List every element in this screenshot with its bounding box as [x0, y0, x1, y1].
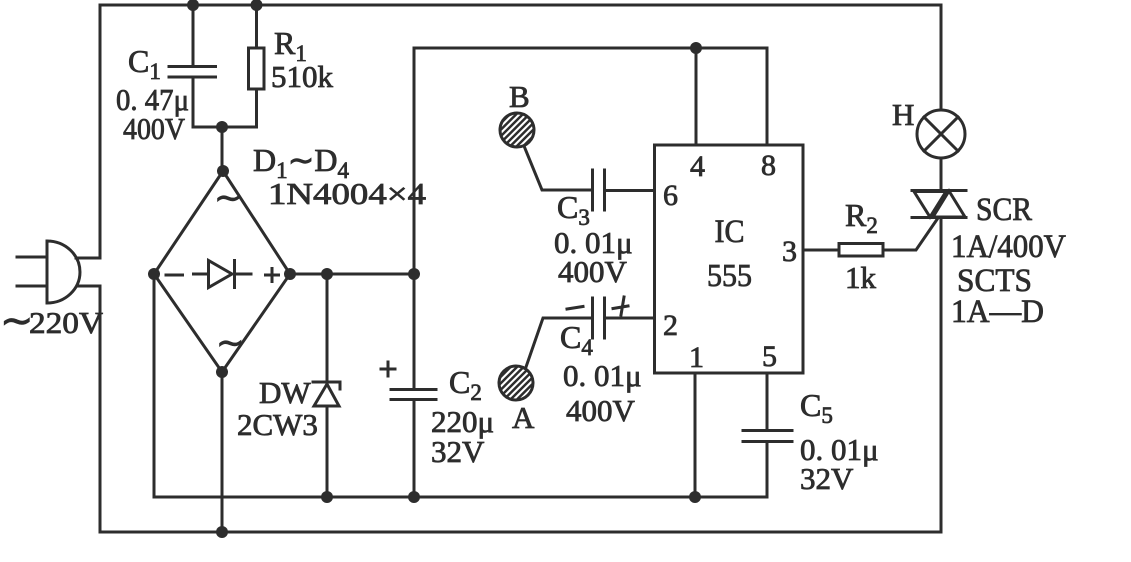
svg-text:SCR: SCR: [976, 192, 1032, 228]
triac SCR: [912, 191, 966, 218]
svg-text:C1: C1: [128, 43, 161, 84]
wire pin4: [695, 48, 698, 145]
capacitor C1: [169, 5, 216, 127]
resistor R2: [839, 244, 883, 257]
label D1~D4: [253, 142, 427, 211]
label bridge ac top: [214, 180, 243, 217]
wire C3 to pin6: [605, 189, 654, 192]
svg-text:1k: 1k: [845, 260, 877, 295]
svg-text:C2: C2: [449, 364, 482, 405]
pin 5: [762, 340, 777, 373]
label C4 value: [560, 319, 642, 428]
node bridge bottom: [216, 366, 228, 378]
label bridge ac bottom: [216, 325, 245, 362]
node pin4 top: [690, 42, 702, 54]
svg-text:5: 5: [762, 340, 777, 373]
wire top rail: [100, 4, 941, 7]
touch plate A: [499, 366, 533, 400]
svg-text:8: 8: [761, 149, 776, 182]
svg-text:510k: 510k: [271, 59, 334, 94]
capacitor C4: [593, 298, 605, 338]
pin 4: [690, 150, 705, 183]
svg-text:R2: R2: [845, 197, 878, 238]
svg-text:C5: C5: [800, 387, 833, 428]
wire pin3: [803, 249, 839, 252]
label C4 polarity minus: [567, 307, 583, 310]
svg-text:DW: DW: [259, 375, 311, 410]
wire lamp to triac: [940, 158, 943, 190]
svg-text:4: 4: [690, 150, 705, 183]
pin 3: [782, 235, 797, 268]
label C5 value: [800, 387, 879, 496]
label SCR: [951, 192, 1066, 330]
label H: [892, 97, 914, 132]
wire inner top rail: [414, 47, 767, 50]
wire triac to bottom rail: [940, 218, 943, 532]
pin 2: [663, 309, 678, 342]
label DW: [237, 375, 318, 442]
wire top rail to lamp: [940, 5, 943, 110]
svg-text:A: A: [512, 400, 535, 435]
label IC 555: [707, 214, 752, 293]
wire left vertical lower: [78, 286, 100, 532]
svg-text:1A—D: 1A—D: [951, 294, 1044, 330]
node DW bottom: [321, 491, 333, 503]
pin 8: [761, 149, 776, 182]
wire left vertical upper: [76, 5, 100, 258]
svg-text:1A/400V: 1A/400V: [951, 229, 1066, 265]
svg-text:400V: 400V: [123, 111, 186, 146]
plug XP: [17, 241, 80, 303]
svg-text:1: 1: [689, 341, 704, 374]
wire junction to bridge top: [221, 127, 224, 171]
wire ground rail: [154, 496, 767, 499]
wire B to C3: [524, 146, 591, 190]
svg-text:32V: 32V: [800, 461, 854, 496]
label C2 value: [431, 364, 494, 469]
IC U1 555: [655, 145, 804, 373]
wire pin8: [766, 48, 769, 144]
label C1 value: [116, 43, 189, 146]
svg-text:2CW3: 2CW3: [237, 407, 318, 442]
capacitor C2: [391, 274, 436, 497]
svg-text:IC: IC: [715, 214, 745, 250]
svg-text:2: 2: [663, 309, 678, 342]
svg-text:0. 01μ: 0. 01μ: [563, 358, 642, 393]
wire bridge plus to C2: [290, 273, 414, 276]
node bottom rail: [216, 526, 228, 538]
svg-text:C4: C4: [560, 319, 593, 360]
wire pin1 to ground: [694, 373, 697, 497]
wire A to C4: [526, 318, 591, 367]
label C4 polarity plus: [613, 297, 628, 315]
svg-text:400V: 400V: [558, 254, 628, 289]
svg-text:6: 6: [663, 179, 678, 212]
node C2 top: [408, 268, 420, 280]
svg-text:∼: ∼: [216, 325, 245, 362]
pin 6: [663, 179, 678, 212]
label R2 value: [845, 197, 878, 295]
lamp H: [917, 110, 965, 158]
label C3 value: [554, 189, 633, 289]
wire bridge bottom to rail: [221, 372, 224, 532]
svg-text:220V: 220V: [29, 305, 104, 340]
wire bottom rail: [100, 531, 941, 534]
node top rail left: [187, 0, 199, 11]
label A: [512, 400, 535, 435]
svg-text:C3: C3: [557, 189, 590, 230]
pin 1: [689, 341, 704, 374]
wire pin5: [766, 373, 769, 429]
capacitor C5: [743, 431, 792, 498]
node C1R1 junction: [216, 121, 228, 133]
node top rail right: [251, 0, 263, 11]
svg-text:∼: ∼: [214, 180, 243, 217]
node bridge top: [217, 165, 229, 177]
svg-text:3: 3: [782, 235, 797, 268]
wire C4 to pin2: [605, 317, 654, 320]
svg-text:555: 555: [707, 257, 752, 293]
wire C1-R1 bottom: [193, 126, 257, 129]
node C2 bottom: [408, 491, 420, 503]
label ~220V: [0, 298, 104, 343]
wire bridge minus down: [153, 274, 156, 497]
touch plate B: [500, 113, 534, 147]
wire R2 to gate: [883, 218, 938, 250]
wire Vcc riser: [413, 48, 416, 274]
capacitor C3: [593, 170, 605, 210]
label B: [509, 79, 530, 114]
node bridge left: [148, 268, 160, 280]
zener DW: [313, 274, 340, 497]
node pin1 ground: [689, 491, 701, 503]
svg-text:400V: 400V: [566, 393, 636, 428]
node bridge right: [284, 268, 296, 280]
label R1 value: [271, 25, 334, 94]
node DW top: [321, 268, 333, 280]
bridge rectifier D1-D4: [154, 171, 290, 372]
svg-text:B: B: [509, 79, 530, 114]
svg-text:1N4004×4: 1N4004×4: [268, 176, 427, 211]
svg-text:H: H: [892, 97, 914, 132]
svg-text:32V: 32V: [431, 434, 485, 469]
resistor R1: [249, 5, 265, 127]
label C2 polarity: [381, 362, 395, 376]
